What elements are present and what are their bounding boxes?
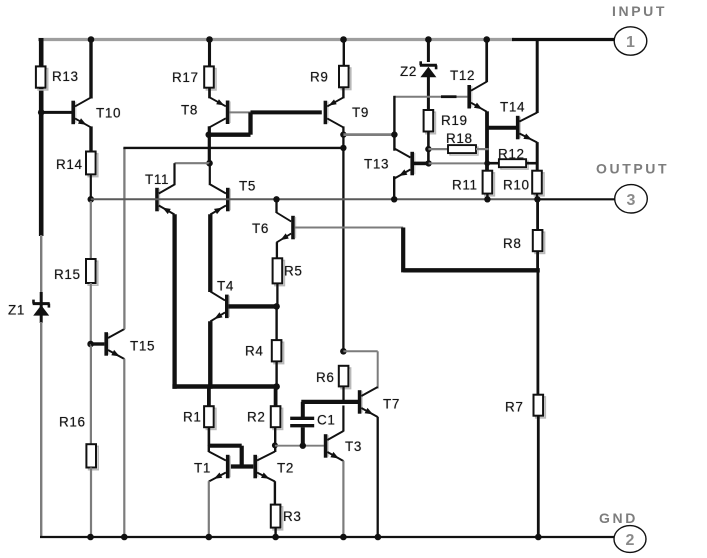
junction top rail at T12 collector <box>483 36 490 43</box>
junction T13 base node <box>425 160 431 166</box>
junction at T15 base node <box>87 341 94 348</box>
resistor R7 <box>534 395 546 418</box>
resistor R9 <box>339 66 351 90</box>
svg-text:T13: T13 <box>364 157 389 172</box>
svg-text:R10: R10 <box>503 178 530 193</box>
junction T4 base / R4 / R5 <box>273 303 280 310</box>
junction output line at R11 <box>484 196 490 202</box>
label R1 <box>183 410 201 425</box>
wire: output sense line mid segment <box>343 198 538 200</box>
label R8 <box>503 236 521 251</box>
svg-text:R8: R8 <box>503 236 521 251</box>
wire: top supply rail black segment to INPUT pin <box>512 38 615 41</box>
wire: R2 top thick lead <box>274 387 278 407</box>
label R18 <box>446 131 473 146</box>
label T14 <box>500 100 525 115</box>
wire: output line black segment to terminal 3 <box>538 198 615 200</box>
label Z2 <box>400 64 417 79</box>
resistor R8 <box>533 230 545 253</box>
label T7 <box>383 397 400 412</box>
wire: T7 base line (thick) <box>301 400 358 404</box>
wire: T1-T2 base link (thick) <box>229 464 253 468</box>
wire: gray link T9 to T13 collector <box>343 133 394 136</box>
wire: T5 emitter thick descender <box>208 214 212 292</box>
wire: T4 emitter thick descender <box>208 321 212 389</box>
wire: Z2 anode down to R19 <box>427 76 430 110</box>
svg-text:Z1: Z1 <box>8 303 25 318</box>
capacitor C1 top plate <box>290 417 314 420</box>
svg-text:C1: C1 <box>317 413 335 428</box>
svg-text:T8: T8 <box>181 103 198 118</box>
wire: left rail gray lower segment to ground <box>40 322 42 538</box>
svg-text:R6: R6 <box>316 370 334 385</box>
wire: R2 bottom lead <box>274 427 276 452</box>
label T4 <box>217 279 234 294</box>
junction T9 collector with link to T13 <box>340 131 346 137</box>
wire: T10 collector to top rail <box>89 40 92 99</box>
wire: Z2 to top rail <box>427 40 430 63</box>
wire: T8 base-collector loop vertical <box>248 112 252 134</box>
label R2 <box>247 410 265 425</box>
resistor R16 <box>86 444 98 469</box>
junction ground rail at R3 <box>272 534 279 541</box>
svg-text:2: 2 <box>626 532 635 549</box>
label R12 <box>498 147 525 162</box>
pin number 2 <box>626 532 635 549</box>
transistor T8 (PNP) <box>210 97 231 127</box>
resistor R13 <box>36 66 48 89</box>
svg-text:T1: T1 <box>194 461 211 476</box>
zener diode Z1 <box>33 300 50 316</box>
wire: T15 base node down to R16 (gray) <box>90 344 92 444</box>
junction T2 collector / T3 base line <box>272 442 278 448</box>
wire: R14 to node A <box>90 174 92 201</box>
wire: R17 to T8 emitter <box>208 88 211 99</box>
wire: T6 collector to output line <box>275 199 277 213</box>
svg-text:T5: T5 <box>239 179 256 194</box>
transistor T6 <box>277 213 297 243</box>
wire: T8 base stub (gray) <box>229 111 252 113</box>
transistor T11 (PNP) <box>155 185 174 215</box>
resistor R11 <box>483 171 495 196</box>
junction top rail at Z2 <box>425 36 432 43</box>
capacitor C1 top lead <box>301 402 305 417</box>
resistor R5 <box>273 258 285 285</box>
svg-text:R5: R5 <box>284 264 302 279</box>
junction ground rail at T7 emitter <box>375 534 382 541</box>
wire: gray loop to T7 collector (horiz) <box>343 350 377 352</box>
svg-text:R9: R9 <box>310 70 328 85</box>
junction ground rail at T3 emitter <box>340 534 347 541</box>
junction on top rail at T10 collector <box>88 36 95 43</box>
label T6 <box>252 221 269 236</box>
wire: R9 to T9 emitter <box>342 87 344 98</box>
svg-text:T7: T7 <box>383 397 400 412</box>
junction ground rail at T1 emitter <box>206 534 213 541</box>
wire: R1 top thick lead <box>207 387 211 407</box>
label T9 <box>352 105 369 120</box>
capacitor C1 bottom lead <box>301 427 305 445</box>
junction on top rail at R17 <box>206 36 213 43</box>
wire: left rail upper black segment <box>39 38 44 67</box>
wire: R5 lower lead <box>276 283 278 306</box>
label R3 <box>283 509 301 524</box>
svg-text:T2: T2 <box>277 461 294 476</box>
wire: R6 lower lead <box>342 386 344 402</box>
wire: T13 collector riser <box>393 96 395 151</box>
resistor R14 <box>86 152 98 177</box>
svg-text:T6: T6 <box>252 221 269 236</box>
wire: T6 emitter to R5 <box>276 242 278 258</box>
label R17 <box>172 70 199 85</box>
svg-text:R19: R19 <box>441 113 468 128</box>
label R9 <box>310 70 328 85</box>
label T13 <box>364 157 389 172</box>
zener diode Z2 <box>420 61 437 77</box>
wire: R7 column upper <box>537 270 540 394</box>
transistor T9 (PNP) <box>324 97 344 127</box>
wire: T4 base line (thick) <box>229 304 277 308</box>
svg-text:OUTPUT: OUTPUT <box>596 161 669 177</box>
wire: T1 base loop horizontal (thick) <box>209 444 242 448</box>
label T1 <box>194 461 211 476</box>
terminal 3 (OUTPUT) circle <box>615 185 648 213</box>
resistor R12 (horizontal) <box>499 159 528 169</box>
transistor T7 <box>358 387 378 417</box>
junction R18 left end <box>425 146 431 152</box>
wire: T1 emitter to ground (gray) <box>208 481 210 537</box>
transistor T15 <box>104 329 124 359</box>
wire: R18 right lead <box>476 148 489 150</box>
resistor R3 <box>271 505 283 530</box>
transistor T13 <box>394 149 415 179</box>
wire: T11 collector stub <box>173 163 175 185</box>
label R14 <box>56 157 83 172</box>
junction R12 left / T12 emitter column <box>484 160 490 166</box>
wire: feedback thick vertical <box>401 228 405 273</box>
svg-text:Z2: Z2 <box>400 64 417 79</box>
resistor R2 <box>271 406 283 429</box>
wire: left rail gray middle segment <box>40 235 42 293</box>
wire: T6 base line (gray) <box>295 227 403 229</box>
resistor R15 <box>86 259 98 285</box>
junction bus / R4 / R2 <box>273 383 280 390</box>
svg-text:R18: R18 <box>446 131 473 146</box>
junction output line at R10/R8 <box>534 196 540 202</box>
wire: T14 base line (thick) <box>487 126 516 130</box>
node A junction (R14/R15/output sense line) <box>88 196 95 203</box>
svg-text:GND: GND <box>599 510 638 526</box>
label T8 <box>181 103 198 118</box>
svg-text:R16: R16 <box>59 415 86 430</box>
wire: mirror top gray link <box>175 162 210 164</box>
junction ground rail at R7 <box>535 534 542 541</box>
svg-text:R7: R7 <box>505 400 523 415</box>
wire: R1 bottom lead <box>208 427 211 446</box>
wire: T12 base line dark dash <box>441 95 457 98</box>
svg-text:T3: T3 <box>345 439 362 454</box>
transistor T1 <box>209 452 231 482</box>
wire: R4 lower lead <box>275 361 277 386</box>
resistor R4 <box>272 340 284 363</box>
wire: R9 to top rail <box>343 40 345 66</box>
wire: R18 left lead <box>428 148 448 150</box>
junction on ground rail below R16 <box>87 534 94 541</box>
wire: R12 right lead <box>526 162 538 165</box>
label OUTPUT <box>596 161 669 177</box>
wire: long line T15 collector to T9 emitter node <box>123 147 343 149</box>
wire: T10 emitter down to R14 <box>89 126 92 151</box>
label T11 <box>145 172 169 187</box>
junction output line / T6 collector <box>273 196 279 202</box>
wire: R3 to ground <box>274 528 276 537</box>
junction T8 collector / loop <box>206 132 212 138</box>
wire: T10 base from left rail <box>41 111 71 114</box>
transistor T2 <box>253 452 275 482</box>
junction C1 / T3 base line <box>300 443 306 449</box>
label T10 <box>96 106 121 121</box>
label T12 <box>450 68 475 83</box>
label R4 <box>245 344 263 359</box>
wire: T14 emitter down <box>536 142 539 171</box>
wire: output sense line left segment (gray) <box>91 198 344 200</box>
junction on top rail at R9 <box>340 36 347 43</box>
svg-text:INPUT: INPUT <box>612 3 667 19</box>
wire: T15 collector riser (gray) <box>123 148 125 329</box>
wire: T1 collector stub <box>208 446 210 453</box>
wire: T12 base line (gray) <box>394 96 467 98</box>
label T3 <box>345 439 362 454</box>
wire: T8 base to T9 base (thick) <box>251 110 322 114</box>
label INPUT <box>612 3 667 19</box>
svg-text:1: 1 <box>626 34 635 51</box>
wire: T12 collector to top rail <box>485 40 488 83</box>
svg-text:3: 3 <box>627 192 636 209</box>
resistor R6 <box>339 366 351 389</box>
label T5 <box>239 179 256 194</box>
junction T8 collector to current-mirror T11/T5 <box>206 160 213 167</box>
wire: T13 base stub (thick) <box>414 162 429 166</box>
resistor R17 <box>204 66 216 89</box>
capacitor C1 bottom plate <box>290 424 314 427</box>
label T2 <box>277 461 294 476</box>
wire: T14 collector riser <box>536 40 539 114</box>
wire: T2 emitter to R3 <box>274 481 276 504</box>
wire: R17 to top rail <box>208 40 211 67</box>
wire: T12 emitter down to R11 (thick) <box>485 111 489 170</box>
svg-text:R12: R12 <box>498 147 525 162</box>
resistor R10 <box>532 171 544 196</box>
svg-text:T10: T10 <box>96 106 121 121</box>
wire: left rail through Z1 (black) <box>40 292 43 323</box>
wire: gray loop to T7 collector (vert) <box>377 351 379 388</box>
wire: left rail below R13 <box>39 88 44 237</box>
wire: T15 emitter to ground (gray) <box>123 359 125 537</box>
junction on left rail at T10 base <box>38 109 45 116</box>
wire: R19 lower lead <box>427 132 430 164</box>
label GND <box>599 510 638 526</box>
wire: R15 to T15 base node (gray) <box>90 283 92 344</box>
label R10 <box>503 178 530 193</box>
svg-text:R3: R3 <box>283 509 301 524</box>
svg-text:T12: T12 <box>450 68 475 83</box>
wire: R4 upper lead <box>275 306 277 340</box>
label R7 <box>505 400 523 415</box>
wire: T8 base-collector loop horizontal <box>209 133 251 137</box>
svg-text:R4: R4 <box>245 344 263 359</box>
junction long-line end at mid vertical <box>340 145 346 151</box>
wire: T3 base line (gray) <box>275 445 324 447</box>
svg-text:R1: R1 <box>183 410 201 425</box>
wire: R8 top lead <box>536 199 539 230</box>
svg-text:T14: T14 <box>500 100 525 115</box>
resistor R18 (horizontal) <box>448 145 478 155</box>
svg-text:T15: T15 <box>130 339 155 354</box>
label Z1 <box>8 303 25 318</box>
label T15 <box>130 339 155 354</box>
svg-text:T4: T4 <box>217 279 234 294</box>
wire: thick bus horizontal <box>172 384 276 389</box>
label R13 <box>52 69 79 84</box>
wire: feedback thick horizontal <box>403 268 540 272</box>
pin number 3 <box>627 192 636 209</box>
resistor R1 <box>204 406 216 429</box>
svg-text:R15: R15 <box>54 267 81 282</box>
wire: R16 to ground rail (gray) <box>90 468 92 538</box>
junction on ground rail at T15 emitter <box>121 534 128 541</box>
label R6 <box>316 370 334 385</box>
transistor T3 <box>324 431 344 461</box>
wire: T9 collector down / mid vertical bus <box>342 126 344 351</box>
svg-text:R11: R11 <box>452 178 478 193</box>
wire: R8 bottom lead <box>536 251 539 270</box>
wire: R12 left lead <box>487 162 499 165</box>
terminal 1 (INPUT) circle <box>614 27 647 55</box>
svg-text:R2: R2 <box>247 410 265 425</box>
label R16 <box>59 415 86 430</box>
terminal 2 (GND) circle <box>614 526 646 553</box>
wire: R7 to ground rail <box>537 416 540 537</box>
wire: T7 emitter to ground <box>377 417 379 537</box>
label R19 <box>441 113 468 128</box>
label R15 <box>54 267 81 282</box>
svg-text:R13: R13 <box>52 69 79 84</box>
svg-text:R17: R17 <box>172 70 199 85</box>
svg-text:T9: T9 <box>352 105 369 120</box>
label R5 <box>284 264 302 279</box>
resistor R19 <box>424 110 436 134</box>
wire: T1 base loop vertical (thick) <box>240 446 244 467</box>
wire: bottom ground rail <box>40 536 615 538</box>
transistor T5 (PNP) <box>210 185 231 215</box>
wire: T3 emitter to ground (gray) <box>342 461 344 537</box>
wire: top supply rail (gray segment) <box>38 38 514 41</box>
transistor T4 <box>210 291 230 321</box>
wire: T13 base to R12 node (gray) <box>429 162 488 164</box>
junction T13 collector / T9 link <box>391 131 397 137</box>
junction output line at T13 emitter <box>391 196 397 202</box>
wire: R10 bottom lead <box>536 194 538 200</box>
wire: T15 base from divider node <box>91 342 105 345</box>
wire: T11 emitter thick descender <box>172 214 176 389</box>
wire: T13 emitter to output line <box>393 176 395 199</box>
wire: R11 bottom lead <box>486 194 488 200</box>
label R11 <box>452 178 478 193</box>
transistor T14 <box>516 113 537 143</box>
transistor T10 <box>71 97 91 127</box>
pin number 1 <box>626 34 635 51</box>
svg-text:T11: T11 <box>145 172 169 187</box>
svg-text:R14: R14 <box>56 157 83 172</box>
transistor T12 <box>467 82 486 112</box>
junction T9-collector node / R6 <box>340 348 347 355</box>
label C1 <box>317 413 335 428</box>
wire: T5 collector stub <box>209 163 211 185</box>
wire: T3 collector stub up <box>342 406 344 432</box>
wire: T8 collector descender <box>208 126 211 163</box>
wire: node A down to R15 (gray) <box>90 201 92 259</box>
